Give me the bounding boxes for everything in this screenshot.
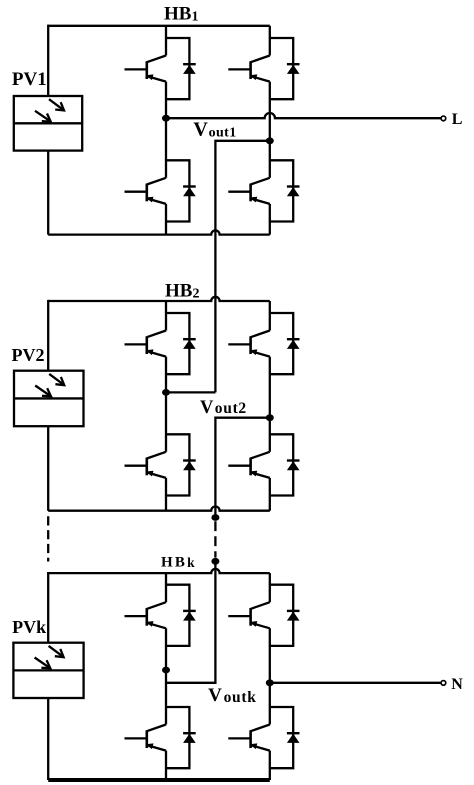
- transistor Sk2 (HBk left bottom): [125, 725, 167, 751]
- wire HBk right leg middle: [269, 628, 271, 724]
- wire HBk left leg upper: [165, 573, 167, 602]
- svg-text:outk: outk: [224, 689, 257, 706]
- node HB2 left-leg midpoint: [162, 389, 170, 396]
- wire HB2 bottom rail: [48, 507, 270, 511]
- PV panel PVk: [13, 643, 83, 698]
- diode D21 (HB2 left top): [166, 313, 196, 374]
- diode Dk2 (HBk left bottom): [166, 707, 196, 768]
- wire HBk top rail: [48, 569, 270, 573]
- wire HB1 top rail: [48, 25, 270, 27]
- wire HB2 top rail: [48, 297, 270, 301]
- wire PV2 negative lead: [47, 426, 49, 511]
- diode D13 (HB1 right top): [270, 38, 300, 99]
- wire HB2 left mid to cascade: [166, 391, 215, 393]
- node HBk left-leg midpoint: [162, 667, 170, 674]
- svg-text:PV2: PV2: [12, 345, 45, 365]
- diode D14 (HB1 right bottom): [270, 160, 300, 221]
- transistor S11 (HB1 left top): [125, 56, 167, 82]
- wire PVk positive lead: [47, 572, 49, 643]
- wire Vout1 to L (hops right leg): [166, 113, 441, 118]
- wire HB1 left leg upper: [165, 26, 167, 56]
- wire HB1 left leg lower: [165, 204, 167, 235]
- diode Dk3 (HBk right top): [270, 585, 300, 646]
- PV panel PV2: [14, 371, 84, 427]
- wire HB1 right leg lower: [269, 204, 271, 235]
- svg-text:V: V: [193, 119, 208, 141]
- wire HB1 bottom rail: [48, 230, 270, 234]
- node Vout2: [266, 414, 274, 421]
- svg-text:L: L: [452, 111, 463, 128]
- wire HB2 left leg upper: [165, 301, 167, 331]
- wire HB2 right leg middle: [269, 357, 271, 452]
- wire PV2 positive lead: [47, 300, 49, 371]
- diode D24 (HB2 right bottom): [270, 434, 300, 495]
- svg-text:HBk: HBk: [161, 555, 197, 571]
- diode D23 (HB2 right top): [270, 313, 300, 374]
- svg-text:PV1: PV1: [12, 69, 47, 90]
- svg-text:V: V: [200, 398, 214, 418]
- wire HB2 right leg lower: [269, 478, 271, 511]
- wire HBk right leg upper: [269, 573, 271, 602]
- wire HB1 right leg upper: [269, 26, 271, 56]
- terminal N: [441, 681, 446, 686]
- transistor S23 (HB2 right top): [228, 331, 269, 357]
- wire HB1 right leg middle: [269, 82, 271, 178]
- transistor S21 (HB2 left top): [125, 331, 167, 357]
- transistor S14 (HB1 right bottom): [228, 178, 269, 204]
- wire HBk right leg lower: [269, 751, 271, 780]
- wire cascade dashed continuation: [214, 521, 216, 557]
- wire HBk left leg middle: [165, 628, 167, 724]
- wire HB2 left leg middle: [165, 357, 167, 452]
- wire HB2 left leg lower: [165, 478, 167, 511]
- wire HB2 right leg upper: [269, 301, 271, 331]
- svg-text:V: V: [208, 685, 222, 706]
- transistor Sk4 (HBk right bottom): [228, 725, 269, 751]
- wire HB1 left leg middle: [165, 82, 167, 178]
- svg-text:PVk: PVk: [12, 617, 46, 637]
- transistor S13 (HB1 right top): [228, 56, 269, 82]
- wire PV1 negative lead: [47, 151, 49, 235]
- transistor Sk1 (HBk left top): [125, 602, 167, 628]
- diode D12 (HB1 left bottom): [166, 160, 196, 221]
- svg-text:N: N: [451, 676, 463, 693]
- wire left rail dashed continuation: [47, 516, 49, 561]
- diode Dk1 (HBk left top): [166, 585, 196, 646]
- node HB1 left-leg midpoint: [162, 115, 170, 122]
- diode D22 (HB2 left bottom): [166, 434, 196, 495]
- wire HBk left leg lower: [165, 751, 167, 780]
- wire Voutk to N: [270, 682, 441, 684]
- svg-text:out1: out1: [209, 125, 237, 140]
- node cascade junction lower: [211, 558, 219, 565]
- transistor S22 (HB2 left bottom): [125, 452, 167, 478]
- transistor S12 (HB1 left bottom): [125, 178, 167, 204]
- wire Vout1 (HB1 right mid to cascade): [215, 141, 269, 393]
- terminal L: [441, 116, 446, 121]
- svg-text:out2: out2: [215, 400, 247, 417]
- wire cascade to HBk left mid: [166, 561, 215, 683]
- node Voutk: [266, 679, 274, 686]
- diode D11 (HB1 left top): [166, 38, 196, 99]
- wire HBk bottom rail: [48, 778, 270, 782]
- wire PV1 positive lead: [47, 25, 49, 96]
- diode Dk4 (HBk right bottom): [270, 707, 300, 768]
- PV panel PV1: [14, 96, 82, 151]
- transistor Sk3 (HBk right top): [228, 602, 269, 628]
- node Vout1: [266, 137, 274, 144]
- transistor S24 (HB2 right bottom): [228, 452, 269, 478]
- wire Vout2 (HB2 right mid down): [215, 418, 269, 518]
- wire PVk negative lead: [47, 698, 49, 780]
- node cascade junction upper: [211, 514, 219, 521]
